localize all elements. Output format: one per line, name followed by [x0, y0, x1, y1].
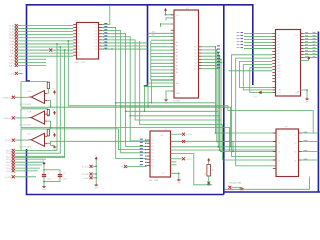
svg-text:D1: D1 — [152, 143, 154, 145]
svg-text:5-A11: 5-A11 — [9, 58, 15, 61]
svg-text:A11: A11 — [278, 67, 281, 70]
svg-text:100n: 100n — [63, 179, 67, 181]
svg-text:O7: O7 — [95, 43, 97, 45]
svg-text:O4: O4 — [95, 34, 97, 36]
svg-text:A2: A2 — [278, 40, 280, 43]
svg-text:D6: D6 — [152, 159, 154, 161]
svg-text:6-A10: 6-A10 — [9, 55, 15, 58]
svg-text:O1: O1 — [95, 24, 97, 26]
svg-text:4-1CO: 4-1CO — [228, 190, 234, 192]
svg-text:13-A3: 13-A3 — [9, 34, 15, 37]
svg-text:D5: D5 — [152, 156, 154, 158]
svg-text:O3: O3 — [95, 30, 97, 32]
svg-text:I10: I10 — [78, 52, 80, 54]
svg-text:I11: I11 — [78, 55, 80, 57]
svg-text:A0: A0 — [278, 34, 280, 37]
svg-text:D3: D3 — [152, 149, 154, 151]
svg-text:A5: A5 — [176, 58, 178, 61]
svg-text:11-A5: 11-A5 — [9, 40, 15, 43]
svg-text:A12: A12 — [278, 70, 281, 73]
svg-text:15-A1: 15-A1 — [9, 28, 15, 31]
svg-text:P1-D5: P1-D5 — [6, 165, 13, 167]
svg-text:27-D1: 27-D1 — [6, 153, 12, 155]
svg-text:3-A13: 3-A13 — [9, 64, 15, 67]
svg-text:A8: A8 — [176, 68, 178, 71]
svg-text:IC4A: IC4A — [27, 90, 32, 93]
svg-text:7HINON: 7HINON — [4, 118, 12, 120]
svg-text:A13: A13 — [152, 30, 155, 33]
svg-text:0-MPO: 0-MPO — [186, 141, 193, 143]
svg-text:10k: 10k — [205, 173, 207, 176]
svg-text:EPL_10L8: EPL_10L8 — [76, 62, 87, 64]
svg-text:IC4C: IC4C — [27, 134, 32, 136]
svg-text:Pulsador NA: Pulsador NA — [229, 181, 242, 184]
svg-text:A9: A9 — [278, 61, 280, 64]
svg-text:A7: A7 — [278, 55, 280, 58]
svg-text:74HCT4066N: 74HCT4066N — [19, 104, 32, 106]
svg-text:78-NIK: 78-NIK — [5, 140, 12, 142]
svg-text:16-A0: 16-A0 — [9, 25, 15, 28]
svg-text:I6: I6 — [78, 40, 79, 42]
svg-text:16-D7: 16-D7 — [6, 171, 12, 173]
svg-text:A0: A0 — [176, 41, 178, 44]
svg-text:C2: C2 — [63, 173, 65, 175]
svg-text:2-GND: 2-GND — [83, 178, 90, 180]
svg-text:O1: O1 — [194, 50, 196, 52]
svg-text:C1: C1 — [47, 173, 49, 175]
svg-text:O8: O8 — [95, 46, 97, 48]
svg-text:A14: A14 — [152, 34, 155, 37]
svg-text:n-PUT: n-PUT — [186, 159, 193, 161]
svg-text:36: 36 — [121, 167, 123, 169]
svg-text:I2: I2 — [78, 27, 79, 29]
svg-text:12-A4: 12-A4 — [9, 37, 15, 40]
svg-text:A4: A4 — [176, 54, 178, 57]
svg-text:A3: A3 — [278, 43, 280, 46]
svg-text:36-D0: 36-D0 — [6, 150, 12, 152]
svg-text:A8: A8 — [278, 58, 280, 61]
svg-text:O6: O6 — [95, 40, 97, 42]
svg-text:30-D4: 30-D4 — [6, 162, 12, 164]
svg-text:49-GND: 49-GND — [82, 174, 90, 176]
svg-text:O3: O3 — [194, 56, 196, 58]
svg-text:07-VCC: 07-VCC — [82, 166, 90, 168]
svg-text:D2: D2 — [152, 146, 154, 148]
svg-text:GND: GND — [305, 101, 310, 103]
svg-text:A9: A9 — [176, 71, 178, 74]
svg-text:I8: I8 — [78, 46, 79, 48]
svg-text:29-D6: 29-D6 — [6, 168, 12, 170]
svg-text:GND: GND — [164, 102, 169, 104]
svg-text:O9: O9 — [95, 49, 97, 51]
svg-text:GND: GND — [177, 182, 182, 184]
svg-text:25-D3: 25-D3 — [6, 159, 12, 161]
svg-text:4I7UMP: 4I7UMP — [173, 100, 181, 102]
svg-text:D7: D7 — [152, 162, 154, 164]
svg-text:I7: I7 — [78, 43, 79, 45]
svg-text:GND: GND — [94, 187, 99, 189]
svg-text:D4: D4 — [152, 153, 154, 155]
svg-text:A7: A7 — [176, 64, 178, 67]
svg-text:O6: O6 — [194, 65, 196, 67]
svg-text:15-MR: 15-MR — [5, 177, 12, 179]
svg-text:0-CLK: 0-CLK — [186, 134, 192, 136]
svg-text:O5: O5 — [95, 37, 97, 39]
svg-text:I3: I3 — [78, 30, 79, 32]
svg-text:A3: A3 — [176, 51, 178, 54]
svg-text:GND: GND — [42, 189, 47, 191]
svg-text:I4: I4 — [78, 34, 79, 36]
svg-text:4-A12: 4-A12 — [9, 61, 15, 64]
svg-text:O4: O4 — [194, 59, 196, 61]
svg-text:A1: A1 — [278, 37, 280, 40]
svg-text:14-A2: 14-A2 — [9, 31, 15, 34]
svg-text:10-A6: 10-A6 — [9, 43, 15, 46]
svg-text:74HCT4066N: 74HCT4066N — [19, 125, 32, 127]
svg-text:100n: 100n — [47, 179, 51, 181]
svg-text:R1: R1 — [212, 169, 214, 171]
svg-text:I1: I1 — [78, 24, 79, 26]
svg-text:A13: A13 — [278, 73, 281, 76]
svg-text:PAL_GBK: PAL_GBK — [149, 179, 159, 182]
svg-text:IC4B: IC4B — [27, 111, 32, 113]
svg-text:A14: A14 — [278, 76, 281, 79]
svg-text:A6: A6 — [278, 52, 280, 55]
svg-text:D0: D0 — [152, 140, 154, 142]
svg-text:A1: A1 — [176, 45, 178, 48]
svg-text:A6: A6 — [176, 61, 178, 64]
svg-text:01-KBRD: 01-KBRD — [40, 50, 49, 52]
svg-text:O2: O2 — [95, 27, 97, 29]
svg-text:A5: A5 — [278, 49, 280, 52]
svg-text:KOMIO-B: KOMIO-B — [3, 97, 12, 99]
svg-text:O0: O0 — [194, 47, 196, 49]
svg-text:O5: O5 — [194, 62, 196, 64]
svg-text:74HCT4066N: 74HCT4066N — [19, 147, 32, 149]
svg-text:34-D2: 34-D2 — [6, 156, 12, 158]
svg-text:I9: I9 — [78, 49, 79, 51]
svg-text:I5: I5 — [78, 37, 79, 39]
svg-text:A10: A10 — [278, 64, 281, 67]
svg-text:A2: A2 — [176, 48, 178, 51]
svg-text:A4: A4 — [278, 46, 280, 49]
svg-text:O7: O7 — [194, 69, 196, 71]
svg-text:D8: D8 — [152, 165, 154, 167]
svg-text:2-L/R: 2-L/R — [9, 73, 14, 75]
svg-text:O2: O2 — [194, 53, 196, 55]
svg-text:A10: A10 — [176, 82, 179, 85]
